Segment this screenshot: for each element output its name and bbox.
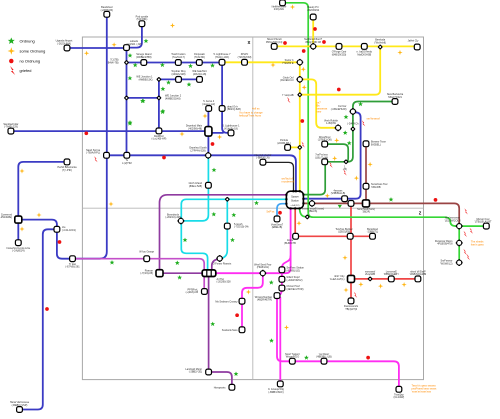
wire fuchsia south to bottom row and TsssQsp <box>277 296 399 388</box>
svg-text:(-67/VB)-261: (-67/VB)-261 <box>65 266 80 269</box>
svg-text:griefed: griefed <box>20 68 32 73</box>
wire orchid Tr doo line to PPBFsrL <box>74 259 204 290</box>
station Bandshed <box>101 6 114 17</box>
station Chrssr Hssf <box>279 285 304 291</box>
station Dssrssssrsfs <box>344 298 359 311</box>
svg-text:'WsqsrF(GO: 'WsqsrF(GO <box>285 356 299 359</box>
svg-text:some Ordnung: some Ordnung <box>20 49 46 54</box>
station 4ssssss <box>331 189 348 201</box>
wire cyan Depelrod South to Bsrsrdsrds and U-loop to AnHur <box>181 155 208 269</box>
svg-text:(220/M-IRL): (220/M-IRL) <box>277 142 291 145</box>
station Wsss Nssr <box>318 136 332 147</box>
junction cyan west <box>225 197 231 203</box>
svg-text:(402/98)-48): (402/98)-48) <box>188 128 202 131</box>
station PPBFsrL <box>186 288 208 294</box>
wire bright green Spawn bottom stub <box>300 208 309 217</box>
station Lfe <box>54 226 76 232</box>
svg-text:Ordnung: Ordnung <box>20 39 35 44</box>
wire red row y=278.9 <box>351 278 418 280</box>
svg-text:Ms Ssslssrs Cssssy: Ms Ssslssrs Cssssy <box>215 300 238 303</box>
svg-text:-(B): -(B) <box>343 168 347 171</box>
station 9-GrssqsrDlg <box>268 381 284 394</box>
station n-baDOferdo <box>357 44 373 57</box>
svg-text:'Mfar/74/021: 'Mfar/74/021 <box>388 96 402 99</box>
svg-text:JaHei Cly: JaHei Cly <box>408 40 419 43</box>
svg-text:'CBL/RB: 'CBL/RB <box>371 186 381 189</box>
svg-text:Station: Station <box>291 199 299 202</box>
svg-text:ssr'fsrssssf: ssr'fsrssssf <box>367 117 380 121</box>
station OForge Optr <box>332 44 347 57</box>
wire cyan Spawn west branch <box>181 199 286 219</box>
svg-text:(-D4FKCh: (-D4FKCh <box>347 123 359 126</box>
svg-text:'LELEW/2OLR: 'LELEW/2OLR <box>444 219 460 222</box>
svg-text:-23BB(7L): -23BB(7L) <box>367 231 379 234</box>
station Sfero Dfendi <box>266 38 283 49</box>
svg-text:(BURU/7B: (BURU/7B <box>284 242 296 245</box>
station VsssSsss7 <box>271 216 284 229</box>
svg-text:'RBW/QsEBY: 'RBW/QsEBY <box>384 273 400 276</box>
wire dark green junction up to Charrchar <box>346 112 353 162</box>
station JaHei Cly <box>408 40 420 50</box>
junction WE-2 <box>156 95 182 101</box>
station 9rfsrd Srqsf <box>279 276 303 282</box>
svg-text:(40U/10-18): (40U/10-18) <box>193 73 207 76</box>
station sfsrsf df ElsrP <box>410 270 427 281</box>
svg-text:murderesf!: murderesf! <box>282 180 295 184</box>
junction WEGfGI <box>282 92 303 98</box>
junction SW <box>124 95 130 101</box>
wire purple OFsrssr spur to AnHur <box>212 259 219 270</box>
svg-text:+4sB(2/2): +4sB(2/2) <box>290 205 299 207</box>
svg-text:(4B2R/4ETH): (4B2R/4ETH) <box>257 299 272 302</box>
svg-text:(EBEL/B): (EBEL/B) <box>272 226 283 229</box>
wire blue row y=79.4 <box>159 78 200 80</box>
wire red vertical 4rslr-City <box>350 203 352 299</box>
svg-text:(HILB/L91): (HILB/L91) <box>257 266 269 269</box>
svg-text:(64B/29/320): (64B/29/320) <box>332 53 347 56</box>
svg-text:(V3B/BsLLB): (V3B/BsLLB) <box>331 192 346 195</box>
svg-text:(-LsL/KB-HP): (-LsL/KB-HP) <box>151 138 166 141</box>
station 4rsns <box>284 233 298 245</box>
wire blue row y=155.3 into Spawn <box>107 155 296 191</box>
svg-text:(Ty'-IHK): (Ty'-IHK) <box>62 169 72 172</box>
markers: red no-Ordnung dots <box>45 27 437 359</box>
station Spawn Station (central hub) <box>285 190 304 209</box>
wire yellow row y=46.4 <box>274 45 417 47</box>
station NeftHerhelfer <box>272 0 287 11</box>
interchange Bsrsrdsrds <box>165 213 184 224</box>
svg-text:(4BE/BLL/LB): (4BE/BLL/LB) <box>316 356 331 359</box>
svg-text:Spawn: Spawn <box>291 196 299 199</box>
svg-text:(-202/10)-328: (-202/10)-328 <box>165 216 181 219</box>
junction D1 <box>108 59 129 66</box>
svg-text:(-2BB2/-2E): (-2BB2/-2E) <box>189 371 202 374</box>
svg-text:MaID/GHSB: MaID/GHSB <box>357 53 371 56</box>
interchange OFsrssr Rsssrts <box>213 255 232 265</box>
interchange SsrFssrssr <box>440 259 462 266</box>
wire yellow row y=94.7 to Bereloda <box>300 47 380 95</box>
station Tsrshss Bsrlssr <box>335 228 353 239</box>
svg-text:Ssslssrd-Ssss: Ssslssrd-Ssss <box>222 329 238 332</box>
interchange Grids Ouf <box>280 76 303 83</box>
station RosBfror <box>151 128 166 141</box>
wire purple Lambsrd Msrsr to Hsrspssrts <box>209 372 232 386</box>
wire blue Coeremrd to Lfe <box>18 220 57 230</box>
wire purple Rsrrosr to AnHur <box>160 272 204 274</box>
svg-text:B4(4/-7B): B4(4/-7B) <box>108 61 119 64</box>
station Hansrdsrimsrese <box>10 401 30 412</box>
station WE bateHort <box>192 70 207 82</box>
svg-text:PRGs/929 (C)I: PRGs/929 (C)I <box>266 41 283 44</box>
station SsrFsss Ststion <box>279 267 304 273</box>
wire yellow vertical into Spawn <box>299 62 301 191</box>
station Pod upside <box>136 15 149 26</box>
svg-text:(4WBE/21H8): (4WBE/21H8) <box>165 97 181 100</box>
marker: green triangle near Z line <box>338 205 342 208</box>
wire fuchsia stacked stations branch <box>282 256 291 290</box>
station Ompusab <box>194 53 205 65</box>
station Ms Ssslssrs Cssssy <box>215 298 244 304</box>
svg-text:amphith. (-b8): amphith. (-b8) <box>126 43 142 46</box>
svg-text:Hsrspssrts: Hsrspssrts <box>214 387 227 390</box>
station Tsssfr button <box>171 53 186 65</box>
markers: red griefed bolts <box>94 97 473 298</box>
station Lambsrd Msrsr <box>185 368 211 375</box>
orange annotations <box>239 111 263 118</box>
station Bsrsssr Tssr <box>363 141 386 147</box>
wire yellow row y=62.3 east <box>222 61 300 63</box>
svg-text:(-BRB/USCF): (-BRB/USCF) <box>268 391 283 394</box>
wire dark green Charrchar to New Berkovria <box>353 102 393 111</box>
wire blue Depelrod Mais east stub <box>210 132 223 134</box>
station Ssslssrd-Ssss <box>222 327 245 333</box>
station Ssrsshsss Tssr <box>363 183 388 189</box>
station Hsrchsf chsrfsf <box>255 154 272 165</box>
junction Depelrod Mais <box>186 125 212 136</box>
svg-text:1-IB(OW: 1-IB(OW <box>326 122 336 125</box>
svg-text:2620/6292: 2620/6292 <box>307 9 319 12</box>
svg-text:no Ordnung: no Ordnung <box>20 59 41 64</box>
junction staircase <box>343 159 349 171</box>
station Raudy Pr <box>307 6 319 20</box>
svg-text:(5,8/-861): (5,8/-861) <box>136 18 147 21</box>
svg-text:fsss's gsss: fsss's gsss <box>471 243 485 247</box>
X axis gridline <box>252 37 254 380</box>
junction Nand Syrma <box>86 149 109 158</box>
svg-text:(-702/10)-0%: (-702/10)-0% <box>234 226 249 229</box>
Z axis gridline <box>82 207 423 209</box>
station Imsterfsrd <box>6 240 30 253</box>
svg-text:(-2478/-84): (-2478/-84) <box>101 9 114 12</box>
svg-text:(4ssss/-ssf): (4ssss/-ssf) <box>202 103 215 106</box>
wire bright green Msrnsrssr south <box>458 226 460 263</box>
station Nssrl Ssjssrl <box>285 353 300 364</box>
svg-text:(-2620/-664): (-2620/-664) <box>57 43 71 46</box>
svg-text:7720/83 E: 7720/83 E <box>282 62 294 65</box>
wire fuchsia Wssf-Ssrsl-Fssr south strand <box>242 273 263 328</box>
wire fuchsia twin vertical to GrssqsrDlg <box>279 298 281 383</box>
station LsrssrssE <box>384 270 400 281</box>
station Ts <box>122 152 132 165</box>
wire red Spawn south stub to 4rsns <box>294 208 296 237</box>
svg-text:862g/7WD 08: 862g/7WD 08 <box>306 41 322 44</box>
wire blue vertical x=158.9 <box>158 79 160 131</box>
svg-text:(-7(/16)-05): (-7(/16)-05) <box>140 272 153 275</box>
interchange Wssf Ssrsl Fssr <box>254 263 272 276</box>
wire blue Perfid branch <box>18 162 67 241</box>
svg-text:(-7645/-229): (-7645/-229) <box>4 126 18 129</box>
station Sandrad Isfar <box>3 123 18 134</box>
station Uganda Airport <box>56 40 73 51</box>
station Porlula <box>277 139 291 150</box>
svg-text:'38(24): '38(24) <box>362 211 370 214</box>
svg-text:(-252/4WE): (-252/4WE) <box>0 216 12 219</box>
interchange Dsrssrssr Rssrs <box>435 240 463 247</box>
wire fuchsia jog to Wrrssrd Gsrbsp <box>277 288 282 296</box>
wire dark green Wsss-Nssr arm <box>325 144 349 162</box>
wire cyan 5-raysh branch to OFsrssr <box>221 199 227 258</box>
junction 5-Lighthouse-7 <box>213 53 231 65</box>
map border frame <box>82 37 423 380</box>
station TsssQsp <box>394 386 405 399</box>
svg-text:(7ss/Cs/17): (7ss/Cs/17) <box>172 56 185 59</box>
wire red row y=236.3 <box>296 235 373 237</box>
wire bright green NeftHerhelfer trunk to Msrnsrssr <box>283 3 485 226</box>
station Bsrssfssd <box>367 228 379 239</box>
svg-text:((2B/2)/DB: ((2B/2)/DB <box>338 231 350 234</box>
junction Coeremrd <box>0 213 22 223</box>
wire purple Spawn west to Rsrrosr <box>160 195 287 273</box>
junction Rsrrosr <box>140 269 163 276</box>
svg-text:(-7B/Ad-IPL): (-7B/Ad-IPL) <box>86 152 100 155</box>
station Hsrspssrts <box>214 384 235 390</box>
wire blue row y=97.9 <box>127 97 159 99</box>
svg-text:B-EBEL): B-EBEL) <box>371 144 381 147</box>
svg-text:O'Fsrssr Rsssrts: O'Fsrssr Rsssrts <box>213 262 232 265</box>
svg-text:x: x <box>248 40 251 46</box>
wire maroon north branch towers <box>365 144 367 204</box>
svg-text:(4WBE/17B8): (4WBE/17B8) <box>136 56 151 59</box>
interchange Srefor b <box>282 59 303 66</box>
station Perfid Bihurrwnia <box>57 159 77 172</box>
station dead Onr <box>219 105 241 111</box>
svg-text:'LTB(LBLA/LBT: 'LTB(LBLA/LBT <box>474 221 492 224</box>
wire dark green row to junction <box>325 161 344 163</box>
legend <box>8 38 46 75</box>
wire fuchsia AnHur to Spawn <box>203 208 291 274</box>
svg-text:5sP'ss: 5sP'ss <box>267 210 275 214</box>
wire blue Uganda Airport branch <box>67 47 127 49</box>
svg-text:(RLI/EUCUI: (RLI/EUCUI <box>280 79 294 82</box>
svg-text:(BEUS): (BEUS) <box>309 210 318 213</box>
svg-text:sssr: sssr <box>317 110 322 114</box>
station W fou Graspr <box>139 250 154 261</box>
svg-text:(7K/Ar/-1CK): (7K/Ar/-1CK) <box>215 56 229 59</box>
svg-text:7 'sss(s4B: 7 'sss(s4B <box>282 94 294 97</box>
wire purple AnHur south to Lambsrd Msrsr <box>208 276 210 370</box>
svg-text:(-C4)/(E14): (-C4)/(E14) <box>12 250 25 253</box>
junction 7-D4FKCh <box>347 120 359 132</box>
wire yellow Raudy Pr stub <box>312 18 314 46</box>
interchange Msrnsrssrssr <box>444 217 462 230</box>
wire blue Pod upside branch <box>127 26 142 48</box>
svg-text:(-202/B)-328: (-202/B)-328 <box>217 281 232 284</box>
wire dark green Spawn to staircase <box>304 162 325 195</box>
wire yellow Porlula stub <box>289 146 300 148</box>
svg-text:(4WBE/L5K): (4WBE/L5K) <box>139 78 153 81</box>
junction 4rslr City <box>330 275 355 282</box>
svg-text:(70,8/-80): (70,8/-80) <box>194 56 205 59</box>
wire blue row y=62.5 <box>127 62 223 64</box>
svg-text:(LBL/7)-(48: (LBL/7)-(48 <box>315 156 328 159</box>
interchange Vhsh Ruklsh <box>324 119 342 131</box>
station 5-raysh <box>224 223 249 229</box>
svg-text:'LLE/LGLT(L): 'LLE/LGLT(L) <box>330 278 345 281</box>
svg-text:(CL2/4W): (CL2/4W) <box>394 396 405 399</box>
svg-text:(440/2x/128): (440/2x/128) <box>171 73 185 76</box>
interchange maroon east of spawn <box>309 200 316 207</box>
station 5-Lighthouse-1 <box>222 125 240 136</box>
junction green elbow <box>302 207 324 219</box>
wire black Hsrchsf-chsrfsf to Spawn <box>263 162 294 191</box>
svg-text:4sfl ss: 4sfl ss <box>252 107 260 111</box>
wire blue dead-Onr vertical and Lighthouse elbow <box>222 62 231 133</box>
markers: green Ordnung stars <box>110 39 394 376</box>
station Toyobar Disy <box>171 70 186 82</box>
wire blue Depelrod vertical <box>207 111 209 156</box>
svg-text:4FLBOB/47(8: 4FLBOB/47(8 <box>437 243 453 246</box>
junction WE-1 <box>136 76 161 83</box>
junction Porlula <box>297 145 303 151</box>
svg-text:'ssss'ss'ssss'sss: 'ssss'ss'ssss'sss <box>412 390 432 394</box>
junction maroon towers <box>357 200 375 214</box>
station 7ssFsssss <box>315 154 328 165</box>
svg-text:(17B/E1-D8): (17B/E1-D8) <box>318 139 332 142</box>
svg-text:(-C41-1K19): (-C41-1K19) <box>62 229 76 232</box>
station Wrrssrd Gsrbsp <box>255 293 280 302</box>
junction ssrsssssf <box>365 270 376 281</box>
svg-text:'7B(4)4/7)0: '7B(4)4/7)0 <box>345 308 358 311</box>
svg-text:(KUrt/Er-18): (KUrt/Er-18) <box>224 127 238 130</box>
svg-text:(-BEBV/-VSP): (-BEBV/-VSP) <box>12 404 28 407</box>
station 5-Asrss-4 <box>202 100 215 111</box>
wire blue row y=131 <box>11 130 208 132</box>
wire maroon Spawn east line <box>304 203 459 224</box>
junction Depelrod South <box>189 147 211 159</box>
station ZPoPz <box>238 53 252 65</box>
wire blue vertical x=126.5 <box>126 48 128 156</box>
wire yellow Grids-Ouf branch to Vhsh Ruklsh <box>300 79 338 127</box>
svg-text:(72K/5r/OM): (72K/5r/OM) <box>238 56 252 59</box>
svg-text:(4EX/EnUTVR): (4EX/EnUTVR) <box>287 288 304 291</box>
station New Berkovria <box>387 93 404 104</box>
svg-text:(+(218)-CB: (+(218)-CB <box>186 291 199 294</box>
junction Bereloda <box>374 39 386 50</box>
station Glich Infand <box>189 182 212 188</box>
station ssr Dssrr <box>316 353 331 364</box>
svg-text:('Wr,Hsh8): ('Wr,Hsh8) <box>374 42 386 45</box>
markers: yellow some-Ordnung stars <box>19 4 406 330</box>
svg-text:J-(2)'HM: J-(2)'HM <box>122 162 132 165</box>
wire blue Lfe to Tr doo <box>57 231 73 259</box>
interchange Csrrssr <box>331 105 357 115</box>
station Tr doo <box>65 256 80 269</box>
svg-text:(-BMU/LLA): (-BMU/LLA) <box>256 157 269 160</box>
station subeds amphith. <box>124 40 142 50</box>
svg-text:(4UVBL/LE): (4UVBL/LE) <box>287 270 301 273</box>
interchange AnHur <box>202 270 231 284</box>
station NefDsmchfloor <box>304 38 323 50</box>
svg-text:2Uq/sRB: 2Uq/sRB <box>365 273 375 276</box>
svg-text:'WsB/NQGMBI: 'WsB/NQGMBI <box>410 273 427 276</box>
svg-text:'WGW(/L2): 'WGW(/L2) <box>440 262 452 265</box>
svg-text:W fou Graspr: W fou Graspr <box>139 250 154 253</box>
svg-text:z: z <box>419 211 422 217</box>
svg-text:(J7P/4%-528): (J7P/4%-528) <box>190 149 205 152</box>
wire blue line NW trunk (Bandshed vertical to Tr doo) <box>74 16 107 259</box>
station Msrssr Fssr <box>474 218 492 229</box>
wire blue Lfe southwest long branch <box>22 229 57 409</box>
station red top <box>348 201 354 207</box>
svg-text:(-CBL/EHUW): (-CBL/EHUW) <box>331 108 347 111</box>
wire lightblue Spawn west stub to VsssSsss7 <box>277 204 287 217</box>
wire blue Spawn east to Charrchar <box>304 112 361 198</box>
svg-text:(80Es/-528): (80Es/-528) <box>189 185 202 188</box>
svg-text:helicopfTrsm Auns: helicopfTrsm Auns <box>239 114 262 118</box>
svg-text:(+IGM/VD/C2): (+IGM/VD/C2) <box>287 279 303 282</box>
svg-text:2/16)-MU: 2/16)-MU <box>274 8 285 11</box>
station Ssregs Island <box>136 53 152 65</box>
